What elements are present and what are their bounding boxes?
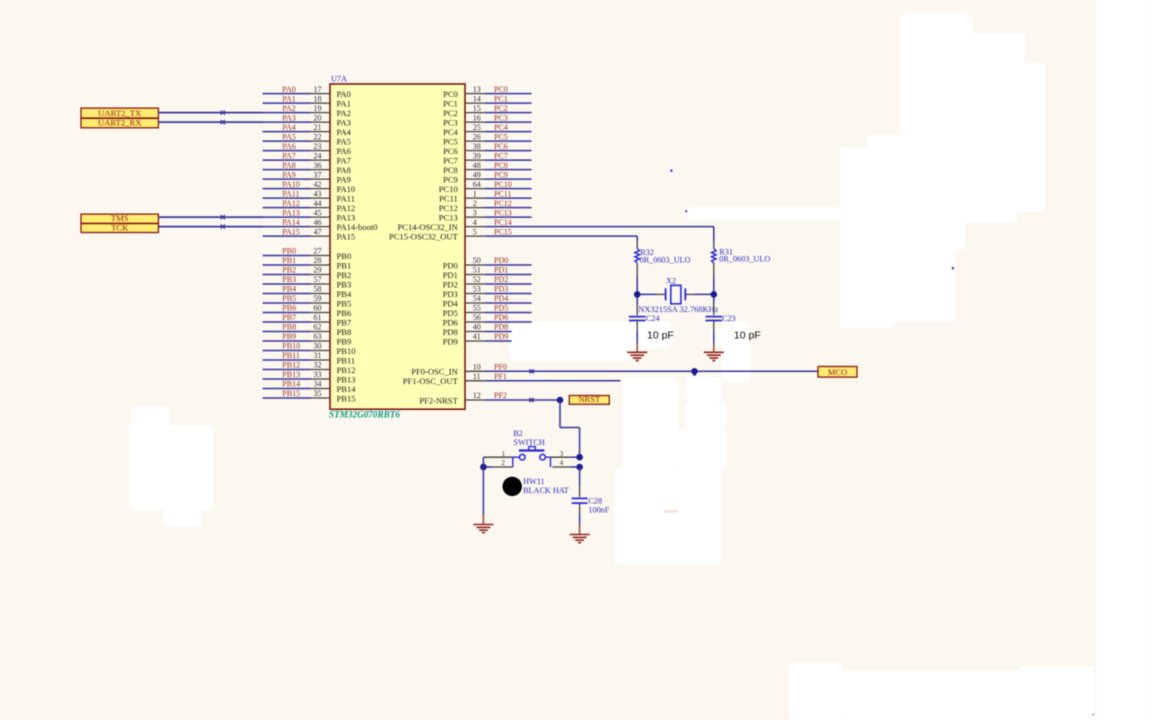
svg-text:PD9: PD9 (443, 336, 458, 346)
svg-text:61: 61 (314, 313, 322, 322)
svg-text:PC0: PC0 (494, 85, 508, 94)
svg-text:PA0: PA0 (337, 89, 351, 99)
svg-text:PC7: PC7 (494, 151, 508, 160)
svg-text:PC6: PC6 (494, 142, 508, 151)
svg-text:PB5: PB5 (282, 294, 296, 303)
svg-text:PF0-OSC_IN: PF0-OSC_IN (411, 367, 458, 377)
svg-text:PD6: PD6 (443, 317, 459, 327)
svg-text:PD1: PD1 (443, 270, 458, 280)
svg-text:C28: C28 (588, 496, 602, 505)
svg-text:1: 1 (473, 189, 477, 198)
svg-text:46: 46 (314, 218, 322, 227)
svg-text:PA2: PA2 (282, 104, 296, 113)
svg-text:PF1-OSC_OUT: PF1-OSC_OUT (403, 376, 459, 386)
svg-text:34: 34 (314, 380, 322, 389)
svg-text:PA3: PA3 (282, 113, 296, 122)
svg-text:2: 2 (501, 459, 505, 467)
svg-text:B2: B2 (513, 429, 523, 438)
svg-text:30: 30 (314, 342, 322, 351)
svg-text:PB6: PB6 (282, 304, 296, 313)
svg-text:PB4: PB4 (282, 285, 296, 294)
svg-text:PA6: PA6 (337, 146, 352, 156)
svg-text:12: 12 (473, 391, 481, 400)
svg-text:PA15: PA15 (282, 227, 300, 236)
svg-text:PD9: PD9 (494, 332, 508, 341)
svg-text:PD5: PD5 (494, 304, 508, 313)
svg-text:41: 41 (473, 332, 481, 341)
svg-text:UART2_RX: UART2_RX (98, 118, 142, 128)
svg-text:14: 14 (473, 94, 481, 103)
svg-text:PA12: PA12 (337, 203, 356, 213)
svg-text:PB15: PB15 (337, 393, 356, 403)
svg-text:10 pF: 10 pF (734, 330, 761, 342)
svg-text:27: 27 (314, 247, 322, 256)
svg-text:PD8: PD8 (443, 327, 458, 337)
svg-text:16: 16 (473, 113, 481, 122)
svg-text:PB9: PB9 (282, 332, 296, 341)
svg-text:PA5: PA5 (282, 132, 296, 141)
svg-text:3: 3 (560, 450, 564, 458)
svg-text:64: 64 (473, 180, 481, 189)
svg-text:PB2: PB2 (282, 266, 296, 275)
svg-text:PC5: PC5 (443, 136, 458, 146)
svg-text:32: 32 (314, 361, 322, 370)
svg-text:PD3: PD3 (494, 285, 508, 294)
svg-text:19: 19 (314, 104, 322, 113)
svg-text:PF2-NRST: PF2-NRST (419, 395, 458, 405)
svg-text:62: 62 (314, 323, 322, 332)
svg-text:3: 3 (473, 208, 477, 217)
svg-text:13: 13 (473, 85, 481, 94)
svg-text:PC13: PC13 (494, 208, 512, 217)
svg-text:PC15: PC15 (494, 227, 512, 236)
svg-text:PC0: PC0 (443, 89, 458, 99)
svg-text:PA1: PA1 (337, 98, 351, 108)
svg-text:PC15-OSC32_OUT: PC15-OSC32_OUT (389, 231, 459, 241)
svg-text:25: 25 (473, 123, 481, 132)
svg-text:PA14: PA14 (282, 218, 300, 227)
svg-text:PA11: PA11 (337, 193, 355, 203)
svg-text:PB15: PB15 (282, 389, 300, 398)
svg-text:PA4: PA4 (337, 127, 352, 137)
svg-text:PC3: PC3 (443, 117, 458, 127)
svg-text:17: 17 (314, 85, 322, 94)
svg-text:PF0: PF0 (494, 363, 507, 372)
svg-text:54: 54 (473, 294, 481, 303)
svg-text:59: 59 (314, 294, 322, 303)
svg-text:42: 42 (314, 180, 322, 189)
svg-text:PC8: PC8 (443, 165, 458, 175)
svg-text:PA7: PA7 (282, 151, 296, 160)
svg-text:PC1: PC1 (494, 94, 508, 103)
svg-text:PA13: PA13 (282, 208, 300, 217)
svg-text:PB8: PB8 (282, 323, 296, 332)
svg-text:43: 43 (314, 189, 322, 198)
svg-text:PB4: PB4 (337, 289, 352, 299)
svg-text:PC7: PC7 (443, 155, 458, 165)
svg-text:PA0: PA0 (282, 85, 296, 94)
svg-text:PD4: PD4 (443, 298, 459, 308)
svg-text:0R_0603_ULO: 0R_0603_ULO (640, 256, 691, 265)
svg-text:PA2: PA2 (337, 108, 351, 118)
svg-text:PA1: PA1 (282, 94, 296, 103)
svg-text:PB1: PB1 (337, 260, 352, 270)
svg-text:PC1: PC1 (443, 98, 458, 108)
svg-text:10: 10 (473, 363, 481, 372)
svg-text:49: 49 (473, 170, 481, 179)
svg-text:U7A: U7A (331, 75, 347, 84)
svg-text:PA7: PA7 (337, 155, 352, 165)
svg-text:PA9: PA9 (337, 174, 351, 184)
svg-text:PD0: PD0 (494, 256, 508, 265)
svg-text:NRST: NRST (578, 394, 601, 404)
svg-text:PA6: PA6 (282, 142, 296, 151)
svg-text:51: 51 (473, 266, 481, 275)
svg-text:26: 26 (473, 132, 481, 141)
svg-text:PB10: PB10 (337, 346, 356, 356)
svg-text:PA13: PA13 (337, 212, 356, 222)
svg-text:PA12: PA12 (282, 199, 300, 208)
svg-text:PA14-boot0: PA14-boot0 (337, 222, 378, 232)
svg-text:PB7: PB7 (337, 317, 352, 327)
svg-text:4: 4 (560, 459, 564, 467)
svg-text:PB1: PB1 (282, 256, 296, 265)
svg-text:PC3: PC3 (494, 113, 508, 122)
svg-text:22: 22 (314, 132, 322, 141)
svg-text:PD1: PD1 (494, 266, 508, 275)
svg-text:PC10: PC10 (494, 180, 512, 189)
svg-text:PB13: PB13 (337, 374, 356, 384)
svg-text:50: 50 (473, 256, 481, 265)
svg-text:PB7: PB7 (282, 313, 296, 322)
svg-text:PB0: PB0 (337, 251, 352, 261)
svg-text:37: 37 (314, 170, 322, 179)
svg-text:PB6: PB6 (337, 308, 352, 318)
svg-text:PB9: PB9 (337, 336, 352, 346)
svg-text:PC8: PC8 (494, 161, 508, 170)
svg-text:SWITCH: SWITCH (513, 438, 544, 447)
svg-text:PB3: PB3 (337, 279, 352, 289)
svg-text:31: 31 (314, 351, 322, 360)
svg-text:PC4: PC4 (443, 127, 458, 137)
svg-text:PD5: PD5 (443, 308, 458, 318)
svg-text:X2: X2 (666, 276, 676, 285)
svg-text:PA10: PA10 (337, 184, 356, 194)
svg-text:C24: C24 (646, 314, 660, 323)
svg-text:PB11: PB11 (337, 355, 356, 365)
svg-text:PB14: PB14 (282, 380, 300, 389)
svg-text:NX3215SA 32.768KHz: NX3215SA 32.768KHz (638, 305, 718, 314)
svg-text:PD6: PD6 (494, 313, 508, 322)
svg-text:18: 18 (314, 94, 322, 103)
svg-text:PB14: PB14 (337, 384, 357, 394)
svg-text:STM32G070RBT6: STM32G070RBT6 (329, 409, 400, 419)
svg-text:PB13: PB13 (282, 370, 300, 379)
svg-text:PB11: PB11 (282, 351, 300, 360)
svg-text:PC9: PC9 (494, 170, 508, 179)
svg-text:21: 21 (314, 123, 322, 132)
svg-text:40: 40 (473, 323, 481, 332)
svg-text:PC14-OSC32_IN: PC14-OSC32_IN (397, 222, 457, 232)
svg-text:44: 44 (314, 199, 322, 208)
svg-text:5: 5 (473, 227, 477, 236)
svg-text:PA10: PA10 (282, 180, 300, 189)
svg-text:24: 24 (314, 151, 322, 160)
svg-text:PB10: PB10 (282, 342, 300, 351)
svg-text:PA3: PA3 (337, 117, 351, 127)
svg-text:MCO: MCO (828, 367, 848, 377)
svg-text:PA15: PA15 (337, 231, 356, 241)
svg-text:20: 20 (314, 113, 322, 122)
svg-text:58: 58 (314, 285, 322, 294)
svg-text:PC2: PC2 (494, 104, 508, 113)
svg-text:PF2: PF2 (494, 391, 507, 400)
svg-text:35: 35 (314, 389, 322, 398)
svg-text:PD4: PD4 (494, 294, 508, 303)
svg-text:PA9: PA9 (282, 170, 296, 179)
svg-text:63: 63 (314, 332, 322, 341)
svg-text:PB8: PB8 (337, 327, 352, 337)
svg-text:0R_0603_ULO: 0R_0603_ULO (719, 255, 770, 264)
svg-text:38: 38 (473, 142, 481, 151)
svg-text:15: 15 (473, 104, 481, 113)
svg-text:48: 48 (473, 161, 481, 170)
svg-text:PC5: PC5 (494, 132, 508, 141)
svg-text:PC13: PC13 (439, 212, 458, 222)
svg-text:PC11: PC11 (439, 193, 458, 203)
svg-text:PB5: PB5 (337, 298, 352, 308)
svg-text:28: 28 (314, 256, 322, 265)
svg-text:PD0: PD0 (443, 260, 458, 270)
svg-text:33: 33 (314, 370, 322, 379)
svg-text:PC6: PC6 (443, 146, 458, 156)
svg-text:HW11: HW11 (523, 477, 545, 486)
svg-text:57: 57 (314, 275, 322, 284)
svg-text:PA11: PA11 (282, 189, 299, 198)
svg-text:PC11: PC11 (494, 189, 512, 198)
svg-text:PC2: PC2 (443, 108, 458, 118)
svg-text:11: 11 (473, 372, 481, 381)
svg-text:53: 53 (473, 285, 481, 294)
svg-text:60: 60 (314, 304, 322, 313)
svg-text:PD2: PD2 (443, 279, 458, 289)
svg-text:PC4: PC4 (494, 123, 508, 132)
svg-text:56: 56 (473, 313, 481, 322)
svg-text:TCK: TCK (111, 222, 129, 232)
svg-text:PC9: PC9 (443, 174, 458, 184)
svg-text:29: 29 (314, 266, 322, 275)
svg-text:100nF: 100nF (588, 505, 609, 514)
svg-text:45: 45 (314, 208, 322, 217)
svg-text:PC12: PC12 (439, 203, 458, 213)
svg-text:PF1: PF1 (494, 372, 507, 381)
svg-text:PD3: PD3 (443, 289, 458, 299)
svg-text:47: 47 (314, 227, 322, 236)
svg-text:39: 39 (473, 151, 481, 160)
svg-text:PA4: PA4 (282, 123, 296, 132)
svg-text:1: 1 (502, 450, 506, 458)
svg-text:4: 4 (473, 218, 477, 227)
svg-text:23: 23 (314, 142, 322, 151)
svg-text:PD8: PD8 (494, 323, 508, 332)
svg-text:PB3: PB3 (282, 275, 296, 284)
svg-text:PD2: PD2 (494, 275, 508, 284)
svg-text:52: 52 (473, 275, 481, 284)
svg-text:10 pF: 10 pF (647, 330, 674, 342)
svg-text:C23: C23 (722, 314, 736, 323)
svg-text:UART2_TX: UART2_TX (98, 108, 142, 118)
svg-text:PA5: PA5 (337, 136, 351, 146)
svg-text:PB0: PB0 (282, 247, 296, 256)
svg-text:55: 55 (473, 304, 481, 313)
svg-text:PA8: PA8 (282, 161, 296, 170)
svg-text:PA8: PA8 (337, 165, 351, 175)
svg-text:36: 36 (314, 161, 322, 170)
svg-text:2: 2 (473, 199, 477, 208)
svg-text:PB2: PB2 (337, 270, 352, 280)
svg-text:PC14: PC14 (494, 218, 512, 227)
svg-text:PC12: PC12 (494, 199, 512, 208)
svg-text:PB12: PB12 (282, 361, 300, 370)
svg-text:BLACK HAT: BLACK HAT (523, 486, 569, 495)
svg-text:PC10: PC10 (439, 184, 458, 194)
svg-text:PB12: PB12 (337, 365, 356, 375)
